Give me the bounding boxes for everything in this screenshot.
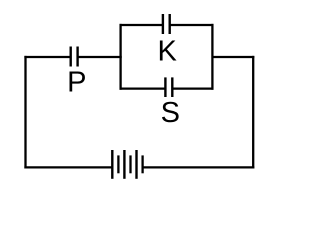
- wire block to right vertical: [212, 56, 254, 58]
- wire block bottom edge left: [120, 87, 166, 89]
- wire bottom left: [24, 166, 112, 168]
- wire bottom right: [143, 166, 255, 168]
- wire block top edge right: [170, 24, 214, 26]
- wire left vertical: [24, 56, 26, 169]
- wire top-left horizontal: [24, 56, 70, 58]
- node: block right edge: [211, 24, 213, 90]
- svg-text:S: S: [161, 97, 180, 129]
- capacitor P: [71, 47, 78, 67]
- wire right vertical: [252, 56, 254, 169]
- wire block top edge left: [120, 24, 163, 26]
- capacitor S: [165, 77, 172, 97]
- wire block bottom edge right: [172, 87, 213, 89]
- capacitor K: [163, 14, 170, 34]
- battery B1: [112, 150, 142, 179]
- node: block left edge: [119, 24, 121, 90]
- wire P to block: [78, 56, 122, 58]
- svg-text:K: K: [158, 36, 178, 68]
- svg-text:P: P: [67, 67, 86, 99]
